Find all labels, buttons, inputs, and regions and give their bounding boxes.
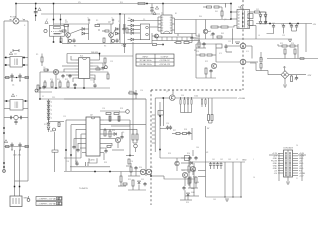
svg-text:ZD1: ZD1 (52, 97, 55, 99)
svg-text:BD1: BD1 (283, 67, 286, 69)
svg-text:D7: D7 (42, 96, 44, 98)
svg-text:Q4: Q4 (43, 67, 45, 69)
svg-text:IC3: IC3 (219, 53, 222, 55)
svg-text:D20: D20 (181, 95, 184, 97)
svg-text:R51: R51 (128, 179, 131, 181)
svg-text:D5: D5 (143, 19, 145, 21)
svg-text:11: 11 (296, 178, 298, 180)
svg-text:R3: R3 (74, 46, 76, 48)
svg-text:C11: C11 (90, 80, 93, 82)
svg-text:R26: R26 (291, 43, 294, 45)
svg-text:C33: C33 (290, 24, 293, 26)
svg-text:L: L (22, 19, 23, 21)
svg-text:C18: C18 (66, 161, 69, 163)
svg-text:C35: C35 (282, 35, 285, 37)
svg-text:L4: L4 (258, 35, 260, 37)
svg-text:C24: C24 (166, 123, 169, 125)
svg-text:R50: R50 (139, 167, 142, 169)
svg-text:C30: C30 (210, 35, 213, 37)
svg-text:R54: R54 (187, 153, 190, 155)
svg-text:R16: R16 (58, 124, 61, 126)
svg-text:R45: R45 (262, 24, 265, 26)
svg-text:L2: L2 (46, 19, 48, 21)
svg-text:R6: R6 (104, 46, 106, 48)
svg-text:Q3: Q3 (224, 19, 226, 21)
svg-text:+12V: +12V (299, 175, 304, 177)
svg-text:R59: R59 (186, 202, 189, 204)
svg-text:R41: R41 (215, 11, 218, 13)
svg-text:R40: R40 (199, 16, 202, 18)
svg-text:230 VAC 50 Hz: 230 VAC 50 Hz (139, 63, 151, 66)
svg-text:L5: L5 (236, 159, 238, 161)
svg-text:R10: R10 (50, 79, 53, 81)
svg-text:C9: C9 (121, 45, 123, 47)
svg-text:R14: R14 (99, 69, 102, 71)
svg-text:GND: GND (242, 160, 247, 162)
svg-text:B1: B1 (175, 13, 177, 15)
svg-text:PG: PG (193, 171, 196, 173)
svg-text:C32: C32 (281, 24, 284, 26)
svg-text:-12V: -12V (307, 75, 312, 77)
svg-text:D21: D21 (195, 96, 198, 98)
svg-text:TL494CN: TL494CN (79, 188, 88, 190)
svg-text:R28: R28 (260, 59, 263, 61)
svg-text:R9: R9 (36, 54, 38, 56)
svg-text:C20: C20 (140, 90, 143, 92)
svg-text:R22: R22 (205, 61, 208, 63)
svg-text:R53: R53 (168, 153, 171, 155)
svg-text:C4: C4 (60, 33, 62, 35)
svg-text:C43: C43 (228, 159, 231, 161)
svg-text:IC4: IC4 (246, 51, 249, 53)
svg-text:20: 20 (296, 145, 298, 147)
svg-text:TL494: TL494 (89, 160, 96, 162)
svg-text:C42: C42 (220, 159, 223, 161)
svg-text:C13: C13 (110, 61, 113, 63)
svg-text:R15: R15 (44, 124, 47, 126)
svg-text:INPUT: INPUT (143, 56, 150, 58)
svg-text:C45: C45 (213, 199, 216, 201)
svg-text:R58: R58 (196, 182, 199, 184)
svg-text:CON1 ATX: CON1 ATX (283, 147, 294, 150)
svg-text:115 VAC 60 Hz: 115 VAC 60 Hz (139, 59, 151, 62)
svg-text:F1 5A: F1 5A (10, 16, 16, 19)
svg-text:10: 10 (253, 177, 255, 179)
svg-text:R20: R20 (196, 51, 199, 53)
svg-text:C41: C41 (212, 159, 215, 161)
svg-text:R30: R30 (112, 130, 115, 132)
svg-text:R43: R43 (221, 33, 224, 35)
svg-text:R57: R57 (182, 170, 185, 172)
svg-text:IC5: IC5 (150, 167, 153, 169)
svg-text:D9: D9 (122, 132, 124, 134)
svg-text:R18: R18 (120, 108, 123, 110)
svg-text:Q7: Q7 (190, 163, 192, 165)
svg-text:R38: R38 (184, 129, 187, 131)
svg-text:R19: R19 (75, 161, 78, 163)
svg-text:OUTPUT: OUTPUT (161, 56, 170, 58)
svg-text:R11: R11 (57, 79, 60, 81)
svg-text:C26: C26 (130, 161, 133, 163)
svg-text:D12: D12 (256, 9, 259, 11)
svg-text:R33: R33 (104, 162, 107, 164)
svg-text:R37: R37 (173, 130, 176, 132)
svg-text:C16: C16 (102, 108, 105, 110)
svg-text:+5V 25A -5V: +5V 25A -5V (159, 59, 170, 62)
svg-text:R12: R12 (65, 79, 68, 81)
svg-text:C15: C15 (63, 116, 66, 118)
svg-text:DBL494: DBL494 (91, 52, 99, 54)
svg-text:R25: R25 (280, 43, 283, 45)
svg-text:= JUMPER = 115 VAC IN: = JUMPER = 115 VAC IN (38, 198, 60, 201)
svg-text:Q5: Q5 (166, 91, 168, 93)
svg-text:D3: D3 (128, 18, 130, 20)
svg-text:C7: C7 (118, 21, 120, 23)
svg-text:C40: C40 (196, 147, 199, 149)
svg-text:C44: C44 (191, 192, 194, 194)
svg-text:R1: R1 (65, 20, 67, 22)
svg-text:D15: D15 (141, 179, 144, 181)
svg-text:C22: C22 (228, 41, 231, 43)
svg-text:C27: C27 (294, 79, 297, 81)
svg-text:C31: C31 (272, 23, 275, 25)
svg-text:1: 1 (253, 159, 254, 161)
svg-text:R5: R5 (96, 20, 98, 22)
svg-text:R88: R88 (191, 188, 194, 190)
svg-text:= JUMPER = 230 VAC IN: = JUMPER = 230 VAC IN (38, 203, 60, 206)
svg-text:+12V 9A -12V: +12V 9A -12V (159, 63, 171, 66)
svg-text:R35: R35 (129, 91, 132, 93)
svg-text:C1: C1 (12, 85, 14, 87)
svg-text:+5VSB: +5VSB (238, 98, 245, 100)
